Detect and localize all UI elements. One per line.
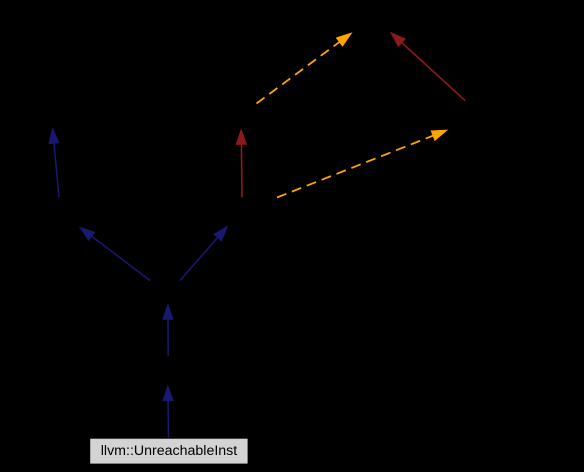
template relation arrow ilist_node_impl instance to ilist_node_impl template xyxy=(257,41,342,104)
node llvm::UnreachableInst xyxy=(90,438,248,464)
inheritance arrow llvm::Instruction to llvm::ilist_node_with_parent xyxy=(180,236,219,280)
private inheritance arrow ilist_node template to ilist_node_impl template xyxy=(400,41,465,100)
private inheritance arrow ilist_node instance to ilist_node_impl instance xyxy=(240,143,243,198)
inheritance arrow llvm::TerminatorInst to llvm::Instruction xyxy=(167,317,169,356)
inheritance arrow llvm::UnreachableInst to llvm::TerminatorInst xyxy=(167,399,170,438)
inheritance arrow llvm::Instruction to llvm::User xyxy=(90,235,150,280)
inheritance arrow llvm::User to llvm::Value xyxy=(54,141,59,197)
template relation arrow ilist_node instance to ilist_node template xyxy=(277,135,435,198)
svg-text:llvm::UnreachableInst: llvm::UnreachableInst xyxy=(101,443,237,459)
